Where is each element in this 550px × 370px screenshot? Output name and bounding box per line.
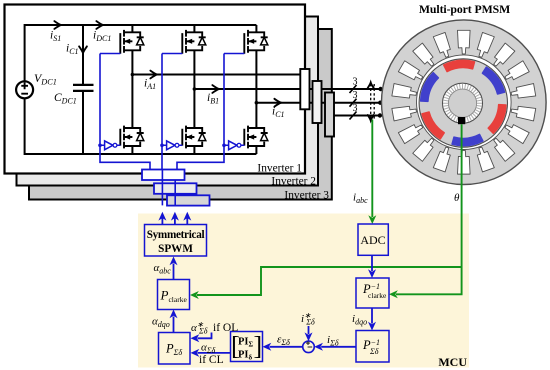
- encoder ticks: [443, 84, 482, 123]
- magnet M5 red: [422, 112, 444, 139]
- wire gate top leg 1: [100, 53, 120, 55]
- wire gate vertical leg 2: [161, 54, 163, 146]
- wire gate top leg 2: [162, 53, 182, 55]
- inverter 3 frame: [29, 29, 332, 200]
- transistor Q4 bottom: [182, 126, 205, 149]
- motor stator ring: [382, 20, 547, 185]
- svg-text:Symmetrical: Symmetrical: [147, 229, 205, 241]
- transistor Q6 bottom: [244, 126, 268, 149]
- wire i_sd Psdinv->sum: [321, 346, 356, 348]
- wire spwm gate output: [186, 217, 188, 225]
- block Symmetrical SPWM: [145, 225, 207, 257]
- buffer driver leg 1: [100, 141, 120, 150]
- encoder inner: [448, 89, 476, 117]
- motor stator slots: [392, 30, 536, 174]
- svg-text:iabc: iabc: [353, 192, 368, 205]
- svg-text:SPWM: SPWM: [158, 243, 193, 255]
- svg-text:Inverter 1: Inverter 1: [257, 163, 302, 175]
- wire leg 1 vertical: [131, 25, 133, 154]
- connector J2: [313, 81, 322, 123]
- node gate junction leg 1: [98, 144, 102, 148]
- wire gate drop leg3: [177, 145, 224, 169]
- node gate junction leg 3: [222, 144, 226, 148]
- svg-text:if OL: if OL: [213, 322, 238, 334]
- svg-text:Inverter 3: Inverter 3: [284, 190, 329, 202]
- wire gate vertical leg 3: [223, 54, 225, 146]
- wire theta branch to Pclarke green: [197, 267, 462, 295]
- bundle slash mark: [350, 112, 357, 120]
- dashed interface line 2: [373, 84, 375, 119]
- wire leg 2 vertical: [193, 25, 195, 154]
- magnet M6 blue: [421, 73, 439, 102]
- wire spwm gate output: [161, 217, 163, 225]
- current arrow iC1 cap: [79, 46, 87, 53]
- MCU panel: [138, 214, 469, 368]
- bundle slash mark: [350, 99, 357, 107]
- wire ADC->Pclarke_inv: [371, 255, 373, 271]
- svg-text:θ: θ: [454, 192, 460, 204]
- svg-text:Inverter 2: Inverter 2: [271, 176, 316, 188]
- current arrow iDC1: [96, 21, 103, 29]
- wire dc- rail: [25, 98, 257, 154]
- svg-text:Multi-port PMSM: Multi-port PMSM: [419, 2, 510, 16]
- interface arrow top: [368, 83, 374, 89]
- magnet M2 blue: [482, 67, 504, 94]
- dashed interface line 1: [370, 84, 372, 119]
- wire i_sd_ref ->sum: [308, 326, 310, 334]
- wire capacitor branch bottom: [82, 92, 84, 154]
- wire capacitor branch top: [82, 25, 84, 84]
- svg-text:3: 3: [353, 103, 358, 114]
- node motor terminal dots: [378, 87, 383, 118]
- summing junction: [303, 341, 315, 353]
- wire alpha_sd_ref ->Psd: [198, 333, 212, 339]
- wire eps_sd sum->PI: [270, 346, 303, 348]
- motor air gap: [417, 55, 512, 150]
- buffer driver leg 3: [224, 141, 244, 150]
- transistor Q3 top: [182, 30, 205, 54]
- wire alpha_abc Pclarke->SPWM: [173, 264, 175, 280]
- svg-text:3: 3: [353, 90, 358, 101]
- gate bus 1: [142, 170, 185, 181]
- current arrow iS1: [54, 21, 61, 29]
- motor rotor: [419, 59, 507, 147]
- capacitor CDC1: [73, 85, 94, 91]
- block P sigma-delta inverse: [356, 331, 389, 363]
- transistor Q5 top: [244, 30, 268, 54]
- svg-text:if CL: if CL: [199, 354, 224, 366]
- inverter 2 frame: [17, 17, 319, 186]
- block P clarke inverse: [356, 278, 389, 308]
- wire dc+ rail: [25, 25, 257, 82]
- block PI controllers: [231, 332, 263, 362]
- wire bus stack through lines: [162, 170, 175, 206]
- wire gate top leg 3: [224, 53, 244, 55]
- magnet M4 blue: [452, 134, 483, 145]
- node gate junction leg 2: [160, 144, 164, 148]
- magnet M1 red: [444, 60, 475, 71]
- wire phase C iC1: [256, 102, 380, 104]
- wire spwm gate output: [174, 217, 176, 225]
- block P clarke: [158, 280, 190, 310]
- voltage source VDC1: [16, 81, 33, 98]
- transistor Q1 top: [120, 30, 143, 54]
- wire inverter3 output: [330, 115, 380, 117]
- position sensor: [458, 117, 465, 124]
- wire theta green: [396, 124, 462, 294]
- block P sigma-delta: [159, 333, 191, 365]
- wire i_abc motor->ADC green: [371, 120, 373, 218]
- block ADC: [358, 224, 388, 255]
- magnet M3 red: [488, 105, 506, 134]
- connector J3: [325, 93, 334, 137]
- svg-text:MCU: MCU: [438, 355, 467, 369]
- wire phase A iA1: [132, 74, 301, 76]
- encoder outer: [443, 83, 483, 123]
- bundle slash mark: [350, 85, 357, 93]
- wire gate drop leg1: [100, 145, 150, 169]
- svg-text:]: ]: [254, 332, 263, 361]
- wire gate drop leg2: [161, 145, 163, 169]
- connector J1: [300, 69, 309, 109]
- interface arrow bottom: [368, 115, 374, 121]
- svg-text:ADC: ADC: [360, 233, 385, 247]
- gate bus 3: [167, 195, 210, 205]
- svg-text:3: 3: [353, 77, 358, 88]
- wire alpha_sd PI->Psd: [198, 352, 231, 354]
- wire phase B iB1: [194, 88, 380, 90]
- transistor Q2 bottom: [120, 126, 143, 149]
- wire alpha_dqo Psd->Pclarke: [173, 317, 175, 333]
- wire leg 3 vertical: [255, 25, 257, 154]
- node phase taps: [131, 73, 259, 105]
- wire i_dqo Pclarkeinv->Psdinv: [371, 308, 373, 324]
- inverter 1 frame: [5, 5, 306, 174]
- wire gate vertical leg 1: [99, 54, 101, 146]
- gate bus 2: [154, 183, 197, 194]
- buffer driver leg 2: [162, 141, 182, 150]
